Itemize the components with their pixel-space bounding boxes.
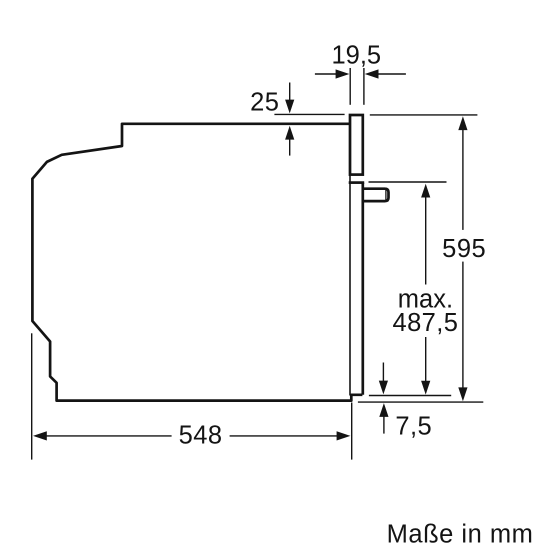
door front right edge: [361, 183, 364, 395]
arrowhead 19.5 left (points right): [336, 69, 350, 78]
dim 595 shaft lower: [462, 262, 464, 389]
door top step line: [349, 181, 365, 184]
arrowhead 548 left: [33, 431, 47, 440]
dim 19.5 right shaft: [378, 73, 406, 75]
arrowhead 25 down: [285, 100, 294, 114]
dim 548 right shaft: [230, 435, 338, 437]
arrowhead 548 right: [337, 431, 351, 440]
svg-text:548: 548: [179, 422, 223, 450]
extension line 548 right: [351, 403, 353, 460]
extension line 19.5 left: [349, 68, 351, 105]
arrowhead 595 up: [458, 116, 467, 130]
hinge bump: [363, 189, 389, 201]
arrowhead 487.5 down: [421, 381, 430, 395]
arrowhead 25 up: [285, 126, 294, 140]
dim 487.5 shaft lower: [425, 337, 427, 382]
svg-text:595: 595: [442, 235, 486, 263]
dim 25 up shaft: [289, 139, 291, 156]
dim 487.5 shaft upper: [425, 197, 427, 285]
arrowhead 19.5 right (points left): [365, 69, 379, 78]
dim 25 down shaft: [289, 83, 291, 101]
hinge bump cap line: [385, 190, 387, 201]
reference line 487.5 top: [369, 181, 447, 183]
svg-text:7,5: 7,5: [395, 412, 432, 440]
arrowhead 595 down: [458, 387, 467, 401]
reference line door bottom: [369, 395, 451, 397]
extension line 19.5 right: [363, 68, 365, 105]
dim 7.5 down shaft: [382, 363, 384, 383]
arrowhead 7.5 up: [379, 403, 388, 417]
dim 595 shaft upper: [462, 130, 464, 230]
reference line top-left (25 dim): [274, 113, 344, 115]
dim 19.5 left shaft: [315, 73, 337, 75]
door control-panel rectangle: [350, 115, 363, 175]
svg-text:25: 25: [250, 89, 279, 117]
extension line 548 left: [31, 333, 33, 459]
arrowhead 487.5 up: [421, 184, 430, 198]
oven body outline: [32, 124, 362, 401]
door front left edge: [349, 175, 351, 396]
dim 548 left shaft: [47, 435, 172, 437]
svg-text:487,5: 487,5: [392, 309, 458, 337]
svg-text:19,5: 19,5: [331, 41, 381, 69]
arrowhead 7.5 down: [379, 381, 388, 395]
reference line niche bottom: [358, 401, 483, 403]
svg-text:Maße in mm: Maße in mm: [387, 521, 534, 549]
reference line top-right (595 top): [370, 114, 478, 116]
dim 7.5 up shaft: [383, 416, 385, 434]
